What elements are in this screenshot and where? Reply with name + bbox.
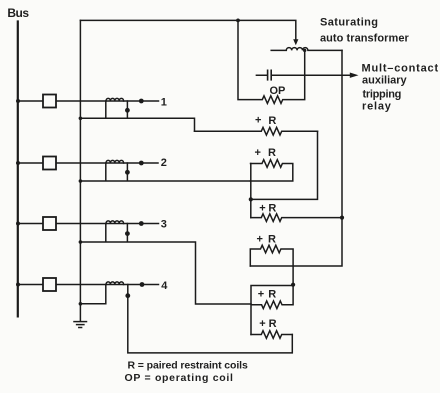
wire: CT4 secondary right leg down to R6 loop (128, 285, 292, 353)
wire: CT3 secondary loop (80, 224, 251, 305)
junction dot bus tap3 (16, 222, 20, 226)
svg-text:OP = operating coil: OP = operating coil (125, 372, 234, 384)
breaker 1 (43, 95, 56, 108)
op coil loop (238, 20, 305, 103)
saturating auto transformer winding (271, 48, 342, 51)
svg-text:+: + (259, 203, 265, 215)
wire: R4 bottom to right riser (250, 50, 342, 266)
arrowhead: to tripping relay (350, 73, 359, 78)
svg-text:+: + (258, 288, 264, 300)
svg-text:3: 3 (161, 219, 167, 231)
svg-text:Bus: Bus (7, 6, 29, 20)
svg-text:tripping: tripping (363, 89, 402, 101)
junction dot CT1 riser (125, 108, 130, 113)
wire: feeder 1 (18, 100, 159, 102)
junction dot bus tap1 (16, 99, 20, 103)
junction dot bus tap2 (16, 161, 20, 165)
junction dot CT4 riser (125, 293, 130, 298)
svg-text:auxiliary: auxiliary (362, 75, 408, 87)
svg-text:Saturating: Saturating (320, 17, 378, 29)
breaker 4 (43, 278, 56, 291)
wire: feeder 3 (18, 223, 159, 225)
junction dot bus tap4 (16, 283, 20, 287)
arrowhead: tap into transformer (293, 39, 298, 45)
svg-text:+: + (255, 147, 261, 159)
svg-text:R: R (268, 115, 276, 127)
resistor R3 (251, 214, 342, 222)
CT coil 4 (106, 282, 124, 285)
junction dot common wire CT2 (79, 179, 83, 183)
junction dot common wire CT4 (79, 302, 83, 306)
junction dot feeder3 (139, 221, 144, 226)
svg-text:1: 1 (161, 96, 167, 108)
junction dot chain left (249, 197, 253, 201)
resistor R2 loop (251, 160, 293, 181)
bus bar (17, 22, 19, 317)
CT coil 1 (106, 98, 124, 101)
wire: left chain vertical (250, 164, 252, 218)
svg-text:Mult–contact: Mult–contact (362, 63, 439, 75)
resistor R6 (251, 331, 292, 339)
ground (74, 322, 87, 328)
wire: feeder 2 (18, 162, 158, 164)
wire: CT2 secondary loop (80, 163, 250, 181)
junction dot top wire OP loop (236, 19, 240, 23)
wire: feeder 4 (18, 284, 159, 286)
CT secondary common vertical wire (79, 20, 81, 320)
svg-text:+: + (255, 115, 261, 127)
resistor R5 loop (251, 286, 293, 335)
svg-text:R: R (268, 147, 276, 159)
junction dot CT3 riser (125, 231, 130, 236)
CT coil 3 (106, 221, 124, 224)
junction dot R3 right (340, 216, 344, 220)
svg-text:auto transformer: auto transformer (320, 33, 409, 45)
resistor R1 (195, 127, 318, 135)
svg-text:R: R (269, 318, 277, 330)
svg-text:R: R (268, 203, 276, 215)
junction dot R4-R5 (291, 283, 295, 287)
svg-text:+: + (257, 233, 263, 245)
capacitor plates (268, 70, 272, 80)
capacitor lead and contact line (256, 74, 350, 76)
svg-text:+: + (259, 318, 265, 330)
svg-text:4: 4 (161, 280, 168, 292)
svg-text:R: R (268, 234, 276, 246)
junction dot common wire CT1 (79, 117, 83, 121)
svg-text:relay: relay (362, 101, 392, 113)
junction dot OP riser at winding (303, 49, 306, 52)
wire: CT4 secondary left leg (80, 285, 105, 304)
junction dot CT2 riser (125, 170, 130, 175)
CT coil 2 (106, 160, 124, 163)
svg-text:R = paired restraint coils: R = paired restraint coils (128, 359, 248, 371)
breaker 2 (43, 157, 56, 170)
wire: CT1 secondary loop (80, 101, 194, 131)
breaker 3 (43, 217, 56, 230)
resistor R4 loop (250, 245, 293, 285)
junction dot common wire CT3 (79, 240, 83, 244)
junction dot feeder2 (139, 161, 144, 166)
svg-text:R: R (268, 289, 276, 301)
svg-text:2: 2 (161, 157, 167, 169)
svg-text:OP: OP (270, 85, 286, 97)
junction dot feeder1 (139, 99, 144, 104)
wire: R1 to junction row (251, 131, 318, 199)
wire: top lead to auto transformer tap (80, 20, 295, 39)
junction dot feeder4 (140, 282, 145, 287)
